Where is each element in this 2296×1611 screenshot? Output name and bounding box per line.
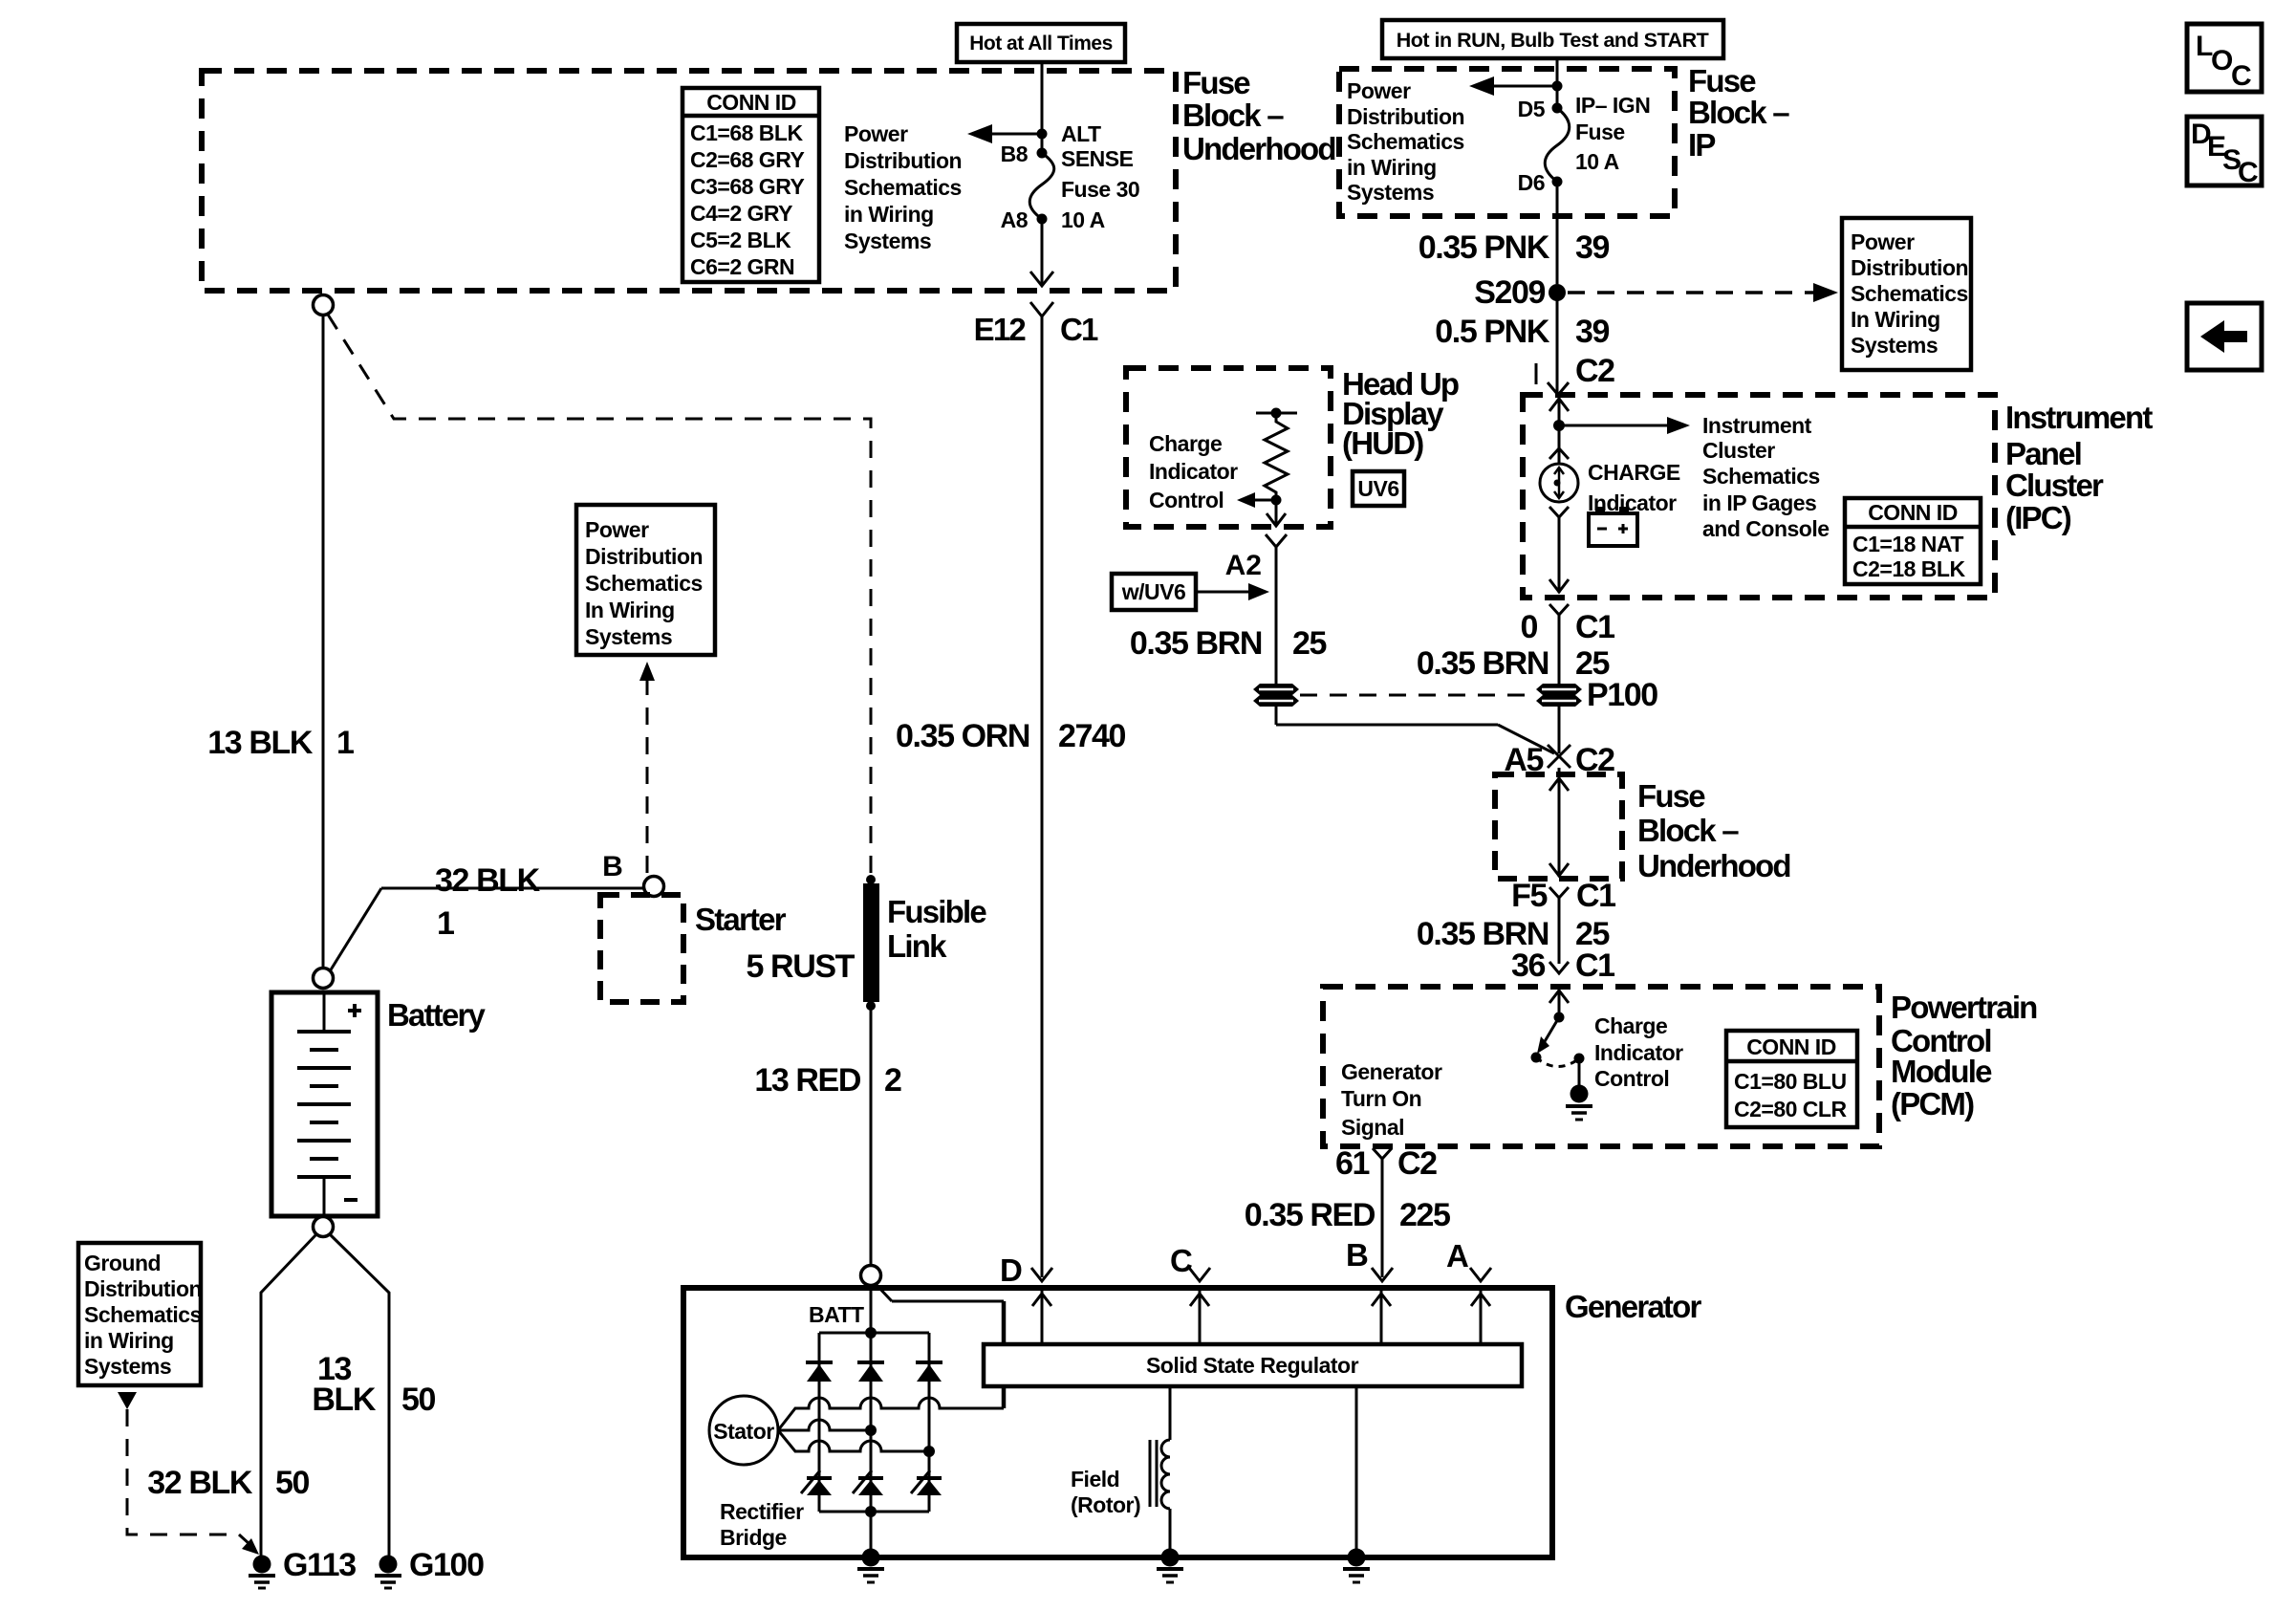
connector C2 (IPC top) <box>1536 353 1614 395</box>
svg-text:B: B <box>602 851 623 882</box>
svg-text:CONN ID: CONN ID <box>1746 1034 1836 1059</box>
note: power distribution schematics reference (inside fuse block IP) <box>1347 78 1464 205</box>
svg-text:Module: Module <box>1891 1054 1992 1089</box>
svg-text:Fuse: Fuse <box>1182 65 1250 100</box>
stator phase wire (middle) <box>778 1420 877 1436</box>
CONN ID table (PCM) <box>1726 1031 1857 1127</box>
svg-text:A: A <box>1446 1238 1468 1274</box>
svg-text:Rectifier: Rectifier <box>720 1499 804 1524</box>
svg-text:CONN ID: CONN ID <box>706 90 796 115</box>
svg-text:10 A: 10 A <box>1061 207 1105 232</box>
ground (rectifier bridge) <box>857 1512 884 1582</box>
solid state regulator <box>984 1344 1522 1386</box>
grommet P100 (right) <box>1536 677 1657 713</box>
arrow to power distribution schematics (left) <box>967 124 1048 143</box>
ground (regulator) <box>1343 1386 1370 1582</box>
ground (inside PCM) <box>1566 1058 1592 1120</box>
option label w/UV6 with arrow <box>1112 574 1269 610</box>
wire: BATT circle down to rectifier rail <box>865 1285 877 1339</box>
svg-text:32 BLK: 32 BLK <box>435 862 541 899</box>
wire: battery negative to G113 <box>261 1234 316 1556</box>
svg-text:Schematics: Schematics <box>1347 129 1464 154</box>
svg-text:0: 0 <box>1520 609 1537 645</box>
svg-text:BATT: BATT <box>809 1302 864 1327</box>
wire: 13 BLK 1 (battery positive feed) <box>207 316 354 969</box>
svg-text:1: 1 <box>437 905 454 942</box>
svg-text:Link: Link <box>887 928 947 964</box>
svg-text:D6: D6 <box>1518 170 1545 195</box>
wire: 13 RED 2 (to generator BATT) <box>754 1006 901 1266</box>
svg-text:Power: Power <box>844 121 908 146</box>
svg-text:UV6: UV6 <box>1357 476 1398 501</box>
connector chevron above CHARGE indicator <box>1549 448 1569 459</box>
svg-text:0.5 PNK: 0.5 PNK <box>1435 314 1550 350</box>
svg-text:Schematics: Schematics <box>84 1302 202 1327</box>
label: Powertrain Control Module (PCM) <box>1891 990 2037 1121</box>
svg-text:Charge: Charge <box>1149 431 1222 456</box>
svg-text:C6=2 GRN: C6=2 GRN <box>690 254 794 279</box>
arrow to power distribution schematics (IP) <box>1469 76 1563 96</box>
label: Head Up Display (HUD) <box>1342 366 1459 461</box>
svg-text:10 A: 10 A <box>1575 149 1619 174</box>
wire: battery negative to G100 <box>312 1234 435 1556</box>
fusible link 5 RUST <box>746 875 986 1011</box>
zener diode (bottom right) <box>911 1470 942 1495</box>
svg-text:IP: IP <box>1688 127 1715 163</box>
svg-text:Power: Power <box>585 517 649 542</box>
svg-text:25: 25 <box>1292 625 1327 662</box>
note: power distribution schematics reference box (right) <box>1842 218 1971 370</box>
svg-text:Fuse 30: Fuse 30 <box>1061 177 1139 202</box>
svg-text:Battery: Battery <box>387 997 487 1033</box>
svg-text:O: O <box>2211 45 2233 76</box>
svg-text:Fuse: Fuse <box>1575 120 1625 144</box>
svg-text:Distribution: Distribution <box>844 148 962 173</box>
zener diode (bottom left) <box>801 1470 832 1495</box>
svg-text:in Wiring: in Wiring <box>84 1328 174 1353</box>
CHARGE indicator lamp <box>1540 460 1680 515</box>
svg-text:C1: C1 <box>1575 609 1614 645</box>
svg-text:in Wiring: in Wiring <box>1347 155 1437 180</box>
connector chevron below CHARGE indicator <box>1549 507 1569 517</box>
wire: dashed run from fuse block to fusible link <box>328 315 871 877</box>
svg-text:Starter: Starter <box>695 902 787 937</box>
fuse IP-IGN Fuse 10 A <box>1545 93 1650 182</box>
stator phase wire (top) to regulator <box>778 1386 1004 1430</box>
fuse block underhood (small, mid-right) dashed outline <box>1495 774 1622 879</box>
label: Instrument Panel Cluster (IPC) <box>2005 400 2153 535</box>
terminal B (starter) <box>602 851 663 897</box>
dashed arrow up to power distribution reference (left) <box>639 662 655 873</box>
svg-text:36: 36 <box>1511 947 1546 984</box>
wire: 0.35 BRN 25 (to PCM) <box>1417 916 1610 952</box>
svg-text:C2=80 CLR: C2=80 CLR <box>1734 1097 1847 1121</box>
svg-text:225: 225 <box>1399 1197 1450 1233</box>
svg-text:A8: A8 <box>1001 207 1029 232</box>
fuse ALT SENSE Fuse 30 10 A <box>1029 121 1139 232</box>
svg-text:and Console: and Console <box>1702 516 1830 541</box>
svg-text:(IPC): (IPC) <box>2005 500 2071 535</box>
terminal BATT (circle) <box>809 1266 881 1328</box>
svg-text:1: 1 <box>336 725 354 761</box>
svg-text:C2=18 BLK: C2=18 BLK <box>1852 556 1965 581</box>
svg-text:32 BLK: 32 BLK <box>147 1465 253 1501</box>
label: Rectifier Bridge <box>720 1499 804 1550</box>
ground (field coil) <box>1157 1549 1183 1583</box>
svg-text:Instrument: Instrument <box>2005 400 2153 435</box>
svg-text:C2=68 GRY: C2=68 GRY <box>690 147 804 172</box>
svg-text:Generator: Generator <box>1565 1289 1701 1324</box>
svg-text:Instrument: Instrument <box>1702 413 1812 438</box>
label: Fuse Block - Underhood (small box) <box>1637 778 1790 883</box>
svg-text:w/UV6: w/UV6 <box>1121 579 1186 604</box>
svg-text:G113: G113 <box>283 1547 356 1583</box>
switch: charge indicator control driver <box>1531 1012 1585 1067</box>
svg-text:50: 50 <box>275 1465 310 1501</box>
ground G100 <box>375 1547 484 1588</box>
svg-text:Bridge: Bridge <box>720 1525 787 1550</box>
label: Hot at All Times <box>957 24 1125 62</box>
back arrow box <box>2187 303 2262 370</box>
svg-text:C1=68 BLK: C1=68 BLK <box>690 120 803 145</box>
svg-text:Underhood: Underhood <box>1182 131 1335 166</box>
svg-text:13 BLK: 13 BLK <box>207 725 314 761</box>
svg-text:Charge: Charge <box>1594 1013 1667 1038</box>
wire: ALT SENSE feed (x=1090) from Hot at All Times through fuse block <box>1041 62 1044 285</box>
svg-text:Turn On: Turn On <box>1341 1086 1421 1111</box>
CONN ID table (fuse block underhood) <box>682 88 819 282</box>
svg-text:In Wiring: In Wiring <box>1851 307 1940 332</box>
pin A8 <box>1001 207 1048 232</box>
svg-text:A2: A2 <box>1225 550 1262 581</box>
battery icon (charge telltale) <box>1589 507 1637 546</box>
svg-text:(HUD): (HUD) <box>1342 425 1423 461</box>
svg-text:Power: Power <box>1347 78 1411 103</box>
battery <box>271 992 487 1216</box>
powertrain control module dashed outline <box>1323 987 1879 1146</box>
stator <box>709 1396 778 1465</box>
label: Fuse Block - IP <box>1688 63 1789 163</box>
node: battery negative junction <box>314 1217 334 1237</box>
svg-text:B8: B8 <box>1001 142 1029 166</box>
svg-text:In Wiring: In Wiring <box>585 598 675 622</box>
node: battery positive junction <box>314 969 334 989</box>
field (rotor) coil <box>1071 1386 1170 1550</box>
svg-text:Block –: Block – <box>1182 98 1284 133</box>
svg-text:2740: 2740 <box>1058 718 1126 754</box>
instrument panel cluster dashed outline <box>1523 395 1995 598</box>
svg-text:CONN ID: CONN ID <box>1868 500 1958 525</box>
svg-text:S209: S209 <box>1474 274 1545 311</box>
svg-text:C: C <box>2238 157 2259 188</box>
svg-text:Signal: Signal <box>1341 1115 1404 1140</box>
svg-text:Schematics: Schematics <box>844 175 962 200</box>
svg-text:13 RED: 13 RED <box>754 1062 860 1099</box>
wire segment below P100 to A5 <box>1558 706 1561 753</box>
junction node in IPC + arrow to instrument cluster schematics note <box>1553 413 1830 541</box>
wire: 32 BLK 1 (to starter B) <box>330 862 644 971</box>
diode (top middle) <box>857 1362 884 1382</box>
svg-text:CHARGE: CHARGE <box>1588 460 1680 485</box>
pin B8 <box>1001 142 1048 166</box>
svg-text:in Wiring: in Wiring <box>844 202 934 227</box>
option label UV6 <box>1353 471 1404 506</box>
svg-text:50: 50 <box>401 1382 436 1418</box>
dashed arrow from ground reference to G113 <box>118 1392 259 1555</box>
wire: 0.35 BRN 25 (IPC to P100) <box>1417 645 1610 682</box>
svg-text:Systems: Systems <box>1347 180 1434 205</box>
svg-text:Stator: Stator <box>713 1419 774 1444</box>
connector E12 / C1 (arrow + chevron) <box>974 272 1098 347</box>
internal terminal feeds with up arrows (D C B A to regulator) <box>1032 1291 1490 1344</box>
fuse block IP dashed outline <box>1339 69 1675 216</box>
svg-text:C5=2 BLK: C5=2 BLK <box>690 228 791 252</box>
svg-text:Control: Control <box>1594 1066 1669 1091</box>
svg-text:Systems: Systems <box>1851 333 1938 358</box>
connector F5 / C1 <box>1511 878 1615 964</box>
arrow to Charge Indicator Control note (HUD) <box>1149 431 1276 512</box>
svg-text:Panel: Panel <box>2005 436 2081 471</box>
wire: IPC feed entering (up arrow) <box>1549 397 1569 464</box>
svg-text:Block –: Block – <box>1637 813 1739 848</box>
pin D6 <box>1518 170 1563 195</box>
svg-text:Field: Field <box>1071 1467 1119 1491</box>
terminal labels D C B A <box>1000 1237 1468 1288</box>
svg-text:Schematics: Schematics <box>1702 464 1820 489</box>
connector A5 / C2 (X symbol) <box>1504 742 1614 778</box>
svg-text:39: 39 <box>1575 314 1610 350</box>
pin D5 <box>1518 97 1563 121</box>
wire: HUD output down arrow + connector A2 <box>1225 500 1287 581</box>
svg-text:C1=18 NAT: C1=18 NAT <box>1852 532 1963 556</box>
svg-text:Distribution: Distribution <box>84 1276 202 1301</box>
wire: IPC internal down to bottom (down arrow) <box>1549 517 1569 593</box>
svg-text:Solid State Regulator: Solid State Regulator <box>1146 1353 1359 1378</box>
DESC box <box>2187 117 2262 188</box>
head up display dashed outline <box>1126 368 1331 527</box>
svg-text:Power: Power <box>1851 229 1915 254</box>
diode (top right) <box>916 1362 942 1382</box>
svg-text:0.35 BRN: 0.35 BRN <box>1417 645 1549 682</box>
svg-text:C1: C1 <box>1575 947 1614 984</box>
svg-text:IP– IGN: IP– IGN <box>1575 93 1650 118</box>
svg-text:Schematics: Schematics <box>1851 281 1968 306</box>
label: Hot in RUN, Bulb Test and START <box>1382 20 1723 58</box>
splice S209 <box>1474 274 1566 311</box>
generator box <box>683 1288 1701 1557</box>
note: power distribution schematics reference (inside underhood fuse block) <box>844 121 962 253</box>
svg-text:D: D <box>1000 1252 1022 1288</box>
svg-text:Indicator: Indicator <box>1594 1040 1683 1065</box>
zener diode (bottom middle) <box>853 1470 883 1495</box>
svg-text:D5: D5 <box>1518 97 1546 121</box>
svg-text:Powertrain: Powertrain <box>1891 990 2037 1025</box>
dashed arrow from S209 to power distribution reference <box>1568 283 1838 302</box>
svg-text:Distribution: Distribution <box>1347 104 1464 129</box>
svg-text:C1=80 BLU: C1=80 BLU <box>1734 1069 1847 1094</box>
svg-text:C1: C1 <box>1060 312 1098 347</box>
ground G113 <box>249 1547 356 1588</box>
svg-text:B: B <box>1346 1237 1368 1273</box>
note: Charge Indicator Control (PCM) <box>1594 1013 1683 1091</box>
svg-text:0.35 PNK: 0.35 PNK <box>1419 229 1550 266</box>
svg-text:2: 2 <box>884 1062 901 1099</box>
svg-text:SENSE: SENSE <box>1061 146 1134 171</box>
note: ground distribution schematics reference box <box>78 1243 202 1385</box>
wire: IGN feed (x=1629) into fuse block IP <box>1556 58 1559 108</box>
grommet (left, HUD branch) <box>1253 684 1299 707</box>
connector 61 / C2 (PCM bottom) <box>1335 1145 1437 1277</box>
svg-text:Systems: Systems <box>84 1354 171 1379</box>
svg-text:Schematics: Schematics <box>585 571 703 596</box>
wire: 0.35 ORN 2740 (x=1090 down to generator D) <box>896 316 1126 1277</box>
svg-text:0.35 RED: 0.35 RED <box>1245 1197 1375 1233</box>
wire: 0.35 BRN 25 (HUD branch) <box>1130 547 1327 685</box>
wire: dashed pass-through link between grommets <box>1300 694 1531 697</box>
stator phase wire (bottom) <box>778 1430 935 1457</box>
connector chevrons at generator terminals <box>1031 1268 1491 1281</box>
svg-text:C3=68 GRY: C3=68 GRY <box>690 174 804 199</box>
LOC box <box>2187 24 2262 92</box>
svg-text:C2: C2 <box>1397 1145 1437 1182</box>
label: Fuse Block - Underhood (top-left) <box>1182 65 1335 166</box>
svg-text:Generator: Generator <box>1341 1059 1442 1084</box>
svg-text:P100: P100 <box>1587 677 1657 713</box>
svg-text:Indicator: Indicator <box>1149 459 1238 484</box>
rectifier bridge rails and branches <box>819 1333 929 1517</box>
wire: 0.35 PNK 39 <box>1419 182 1610 284</box>
wire label 32 BLK 50 <box>147 1465 309 1501</box>
svg-text:61: 61 <box>1335 1145 1370 1182</box>
svg-text:C2: C2 <box>1575 353 1614 389</box>
fuse block underhood (top-left) dashed outline <box>202 71 1176 291</box>
wire through small fuse block (arrows) <box>1549 768 1569 877</box>
wire: BATT circle to regulator <box>876 1284 1004 1344</box>
svg-text:C4=2 GRY: C4=2 GRY <box>690 201 792 226</box>
svg-text:39: 39 <box>1575 229 1610 266</box>
diode (top left) <box>806 1362 833 1382</box>
wire from left grommet joining A5 junction <box>1276 706 1554 753</box>
svg-text:ALT: ALT <box>1061 121 1101 146</box>
note: Generator Turn On Signal <box>1341 1059 1442 1140</box>
note: power distribution schematics reference box (left) <box>576 505 715 655</box>
svg-text:Hot at All Times: Hot at All Times <box>969 33 1113 54</box>
svg-text:Fusible: Fusible <box>887 894 986 929</box>
svg-text:Fuse: Fuse <box>1637 778 1705 814</box>
svg-text:Underhood: Underhood <box>1637 848 1790 883</box>
resistor (HUD charge indicator control) <box>1256 408 1297 506</box>
connector 0 / C1 (IPC bottom) <box>1520 604 1614 685</box>
svg-text:(PCM): (PCM) <box>1891 1086 1974 1121</box>
wire entering PCM (up arrow) <box>1549 989 1569 1017</box>
svg-text:Control: Control <box>1149 488 1224 512</box>
svg-text:Distribution: Distribution <box>1851 255 1968 280</box>
svg-text:0.35 BRN: 0.35 BRN <box>1130 625 1262 662</box>
svg-text:Fuse: Fuse <box>1688 63 1756 98</box>
svg-text:0.35 ORN: 0.35 ORN <box>896 718 1029 754</box>
svg-text:(Rotor): (Rotor) <box>1071 1492 1140 1517</box>
svg-text:in IP Gages: in IP Gages <box>1702 490 1816 515</box>
wire: 0.5 PNK 39 <box>1435 293 1609 395</box>
svg-text:Systems: Systems <box>585 624 672 649</box>
svg-text:C: C <box>1170 1243 1192 1278</box>
svg-text:Block –: Block – <box>1688 95 1789 130</box>
svg-text:G100: G100 <box>409 1547 484 1583</box>
svg-text:C1: C1 <box>1576 878 1615 914</box>
svg-text:F5: F5 <box>1511 878 1547 914</box>
svg-text:Systems: Systems <box>844 229 931 253</box>
svg-text:BLK: BLK <box>312 1382 377 1418</box>
svg-text:C: C <box>2231 60 2252 92</box>
svg-text:Cluster: Cluster <box>1702 438 1775 463</box>
wire: 0.35 RED 225 <box>1245 1197 1450 1233</box>
starter dashed outline <box>600 895 787 1002</box>
svg-text:Ground: Ground <box>84 1251 161 1275</box>
svg-text:Hot in RUN, Bulb Test and STAR: Hot in RUN, Bulb Test and START <box>1397 29 1709 52</box>
connector 36 / C1 (PCM top) <box>1511 947 1614 984</box>
CONN ID table (IPC) <box>1845 498 1981 584</box>
node: circle on underhood fuse block edge <box>314 295 334 316</box>
svg-text:Distribution: Distribution <box>585 544 703 569</box>
svg-text:E12: E12 <box>974 312 1027 347</box>
svg-text:5 RUST: 5 RUST <box>746 948 855 985</box>
svg-text:Cluster: Cluster <box>2005 468 2104 503</box>
